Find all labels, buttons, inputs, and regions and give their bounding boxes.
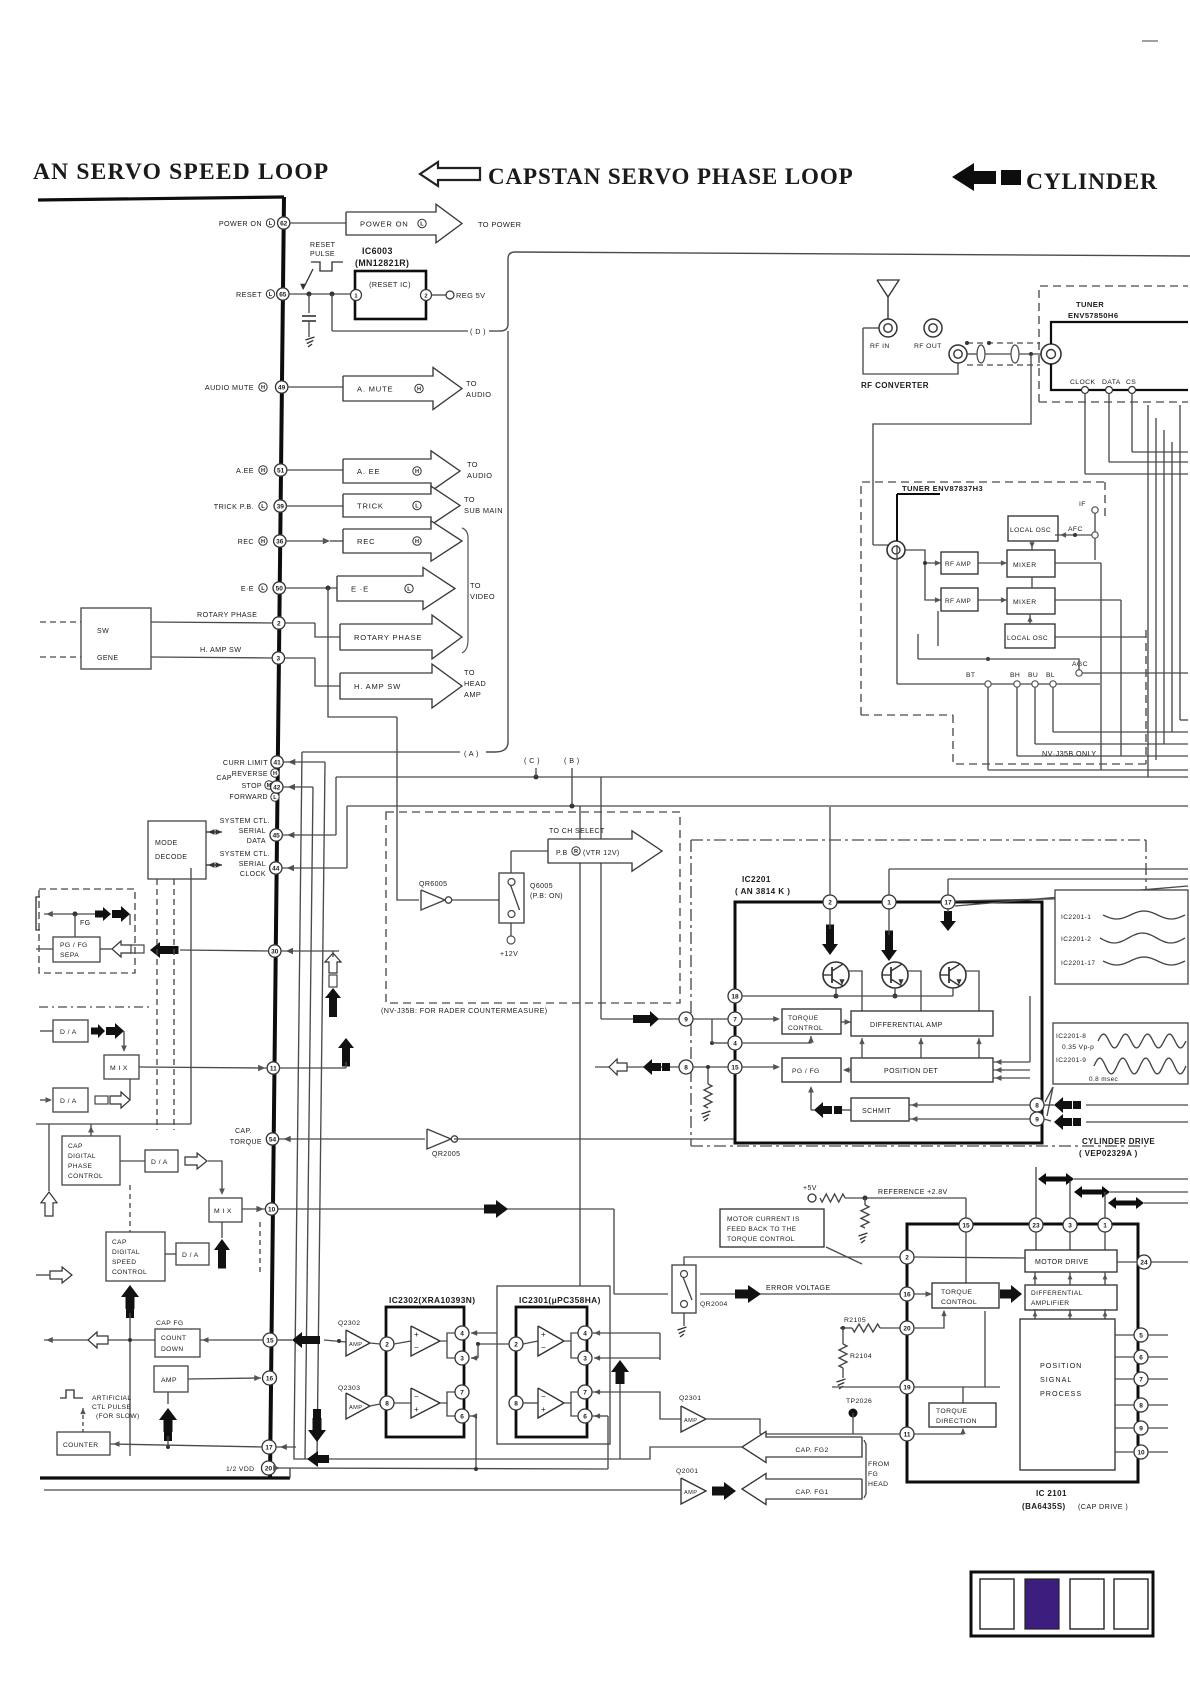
svg-text:TO: TO — [464, 495, 475, 504]
svg-text:( D ): ( D ) — [470, 327, 486, 336]
svg-text:( VEP02329A ): ( VEP02329A ) — [1079, 1149, 1138, 1158]
svg-text:17: 17 — [265, 1444, 273, 1451]
svg-text:IF: IF — [1079, 501, 1086, 508]
svg-text:P.B: P.B — [556, 850, 568, 857]
svg-text:PROCESS: PROCESS — [1040, 1389, 1082, 1398]
svg-text:SYSTEM CTL.: SYSTEM CTL. — [220, 851, 270, 858]
svg-text:TRICK: TRICK — [357, 501, 384, 510]
svg-text:TO: TO — [466, 379, 477, 388]
svg-text:SW: SW — [97, 628, 109, 635]
svg-text:QR6005: QR6005 — [419, 881, 447, 888]
svg-text:TO: TO — [467, 460, 478, 469]
svg-text:RF AMP: RF AMP — [945, 598, 971, 605]
svg-text:AMP: AMP — [349, 1342, 362, 1348]
svg-text:IC6003: IC6003 — [362, 246, 393, 256]
svg-text:2: 2 — [828, 899, 832, 906]
svg-text:RF AMP: RF AMP — [945, 561, 971, 568]
svg-text:45: 45 — [273, 832, 281, 839]
svg-text:ERROR VOLTAGE: ERROR VOLTAGE — [766, 1285, 830, 1292]
svg-text:+12V: +12V — [500, 951, 518, 958]
svg-text:8: 8 — [385, 1400, 389, 1407]
svg-text:0.35 Vp-p: 0.35 Vp-p — [1062, 1044, 1094, 1051]
svg-text:R2104: R2104 — [850, 1353, 872, 1360]
svg-text:11: 11 — [904, 1431, 911, 1438]
svg-text:NV·J35B ONLY: NV·J35B ONLY — [1042, 749, 1097, 758]
svg-text:DOWN: DOWN — [161, 1346, 183, 1353]
svg-text:+5V: +5V — [803, 1185, 817, 1192]
svg-text:51: 51 — [277, 467, 285, 474]
svg-text:TORQUE: TORQUE — [788, 1015, 819, 1022]
svg-text:(CAP DRIVE ): (CAP DRIVE ) — [1078, 1502, 1128, 1511]
svg-text:D / A: D / A — [151, 1159, 168, 1166]
svg-text:H: H — [261, 385, 265, 391]
svg-text:4: 4 — [733, 1040, 737, 1047]
svg-text:L: L — [415, 504, 419, 510]
svg-text:CAPSTAN SERVO PHASE LOOP: CAPSTAN SERVO PHASE LOOP — [488, 164, 854, 189]
svg-text:( C ): ( C ) — [524, 756, 540, 765]
svg-text:REVERSE: REVERSE — [232, 771, 268, 778]
svg-text:7: 7 — [460, 1389, 464, 1396]
svg-text:IC2201-17: IC2201-17 — [1061, 960, 1095, 967]
svg-text:IC2201-1: IC2201-1 — [1061, 914, 1091, 921]
svg-text:17: 17 — [944, 899, 952, 906]
svg-text:2: 2 — [905, 1254, 909, 1261]
svg-text:FG: FG — [868, 1471, 878, 1478]
svg-text:IC2201-8: IC2201-8 — [1056, 1033, 1086, 1040]
svg-text:2: 2 — [514, 1341, 518, 1348]
svg-text:SERIAL: SERIAL — [239, 861, 266, 868]
svg-text:H: H — [415, 469, 419, 475]
svg-text:10: 10 — [268, 1206, 276, 1213]
svg-text:2: 2 — [424, 293, 427, 299]
svg-text:VIDEO: VIDEO — [470, 592, 495, 601]
svg-text:BT: BT — [966, 672, 976, 679]
svg-text:H: H — [261, 468, 265, 474]
svg-text:+: + — [414, 1405, 419, 1414]
svg-text:8: 8 — [514, 1400, 518, 1407]
svg-text:36: 36 — [276, 538, 284, 545]
svg-text:CYLINDER: CYLINDER — [1026, 169, 1158, 195]
svg-text:16: 16 — [266, 1375, 274, 1382]
svg-text:AN SERVO SPEED LOOP: AN SERVO SPEED LOOP — [33, 159, 329, 185]
svg-text:POSITION DET: POSITION DET — [884, 1068, 939, 1075]
svg-text:AMPLIFIER: AMPLIFIER — [1031, 1300, 1069, 1307]
svg-text:H. AMP SW: H. AMP SW — [200, 645, 241, 654]
svg-text:CAP: CAP — [68, 1143, 83, 1150]
svg-text:CTL PULSE: CTL PULSE — [92, 1404, 131, 1411]
svg-text:SYSTEM CTL.: SYSTEM CTL. — [220, 818, 270, 825]
svg-text:39: 39 — [277, 503, 285, 510]
svg-text:15: 15 — [266, 1337, 274, 1344]
svg-text:CAP.: CAP. — [235, 1128, 252, 1135]
svg-text:CAP. FG1: CAP. FG1 — [795, 1489, 828, 1496]
svg-text:A. MUTE: A. MUTE — [357, 384, 393, 393]
svg-text:REC: REC — [238, 537, 254, 546]
svg-text:MIXER: MIXER — [1013, 599, 1037, 606]
svg-text:MOTOR DRIVE: MOTOR DRIVE — [1035, 1259, 1089, 1266]
svg-text:(RESET IC): (RESET IC) — [369, 280, 411, 289]
svg-text:MIXER: MIXER — [1013, 562, 1037, 569]
svg-text:REFERENCE +2.8V: REFERENCE +2.8V — [878, 1189, 948, 1196]
svg-text:20: 20 — [903, 1325, 911, 1332]
svg-text:RF CONVERTER: RF CONVERTER — [861, 381, 929, 390]
svg-text:1: 1 — [1103, 1222, 1107, 1229]
svg-text:BL: BL — [1046, 672, 1055, 679]
svg-text:+: + — [541, 1330, 546, 1339]
svg-text:CONTROL: CONTROL — [941, 1299, 977, 1306]
svg-text:−: − — [414, 1343, 419, 1352]
svg-text:PHASE: PHASE — [68, 1163, 93, 1170]
svg-text:RESET: RESET — [236, 290, 262, 299]
svg-text:L: L — [261, 586, 265, 592]
svg-text:44: 44 — [272, 865, 280, 872]
svg-text:L: L — [420, 222, 424, 228]
svg-text:DIRECTION: DIRECTION — [936, 1418, 977, 1425]
svg-text:AGC: AGC — [1072, 661, 1088, 668]
svg-text:TO POWER: TO POWER — [478, 220, 521, 229]
svg-text:DATA: DATA — [1102, 379, 1121, 386]
svg-text:7: 7 — [733, 1016, 737, 1023]
svg-text:15: 15 — [731, 1064, 739, 1071]
svg-text:TO: TO — [464, 668, 475, 677]
svg-text:E·E: E·E — [241, 584, 254, 593]
svg-text:4: 4 — [460, 1330, 464, 1337]
svg-text:BU: BU — [1028, 672, 1038, 679]
svg-text:TRICK P.B.: TRICK P.B. — [214, 502, 254, 511]
svg-text:8: 8 — [1035, 1102, 1039, 1109]
svg-text:6: 6 — [1139, 1354, 1143, 1361]
svg-text:CONTROL: CONTROL — [112, 1269, 147, 1276]
svg-text:9: 9 — [684, 1016, 688, 1023]
svg-text:AUDIO: AUDIO — [466, 390, 491, 399]
svg-text:0.8 msec: 0.8 msec — [1089, 1076, 1119, 1083]
svg-text:H: H — [415, 539, 419, 545]
svg-text:TORQUE: TORQUE — [941, 1289, 972, 1296]
svg-text:8: 8 — [684, 1064, 688, 1071]
svg-text:SCHMIT: SCHMIT — [862, 1108, 892, 1115]
svg-text:IC2301(μPC358HA): IC2301(μPC358HA) — [519, 1295, 601, 1305]
svg-text:DIFFERENTIAL: DIFFERENTIAL — [1031, 1290, 1083, 1297]
svg-text:H: H — [417, 387, 421, 393]
svg-text:(NV-J35B: FOR RADER COUNTERM: (NV-J35B: FOR RADER COUNTERMEASURE) — [381, 1006, 548, 1015]
svg-text:3: 3 — [583, 1355, 587, 1362]
svg-text:A. EE: A. EE — [357, 467, 380, 476]
svg-text:HEAD: HEAD — [464, 679, 486, 688]
svg-text:SIGNAL: SIGNAL — [1040, 1375, 1072, 1384]
svg-text:LOCAL OSC: LOCAL OSC — [1010, 527, 1051, 534]
svg-text:Q2302: Q2302 — [338, 1320, 360, 1327]
svg-text:IC2302(XRA10393N): IC2302(XRA10393N) — [389, 1295, 475, 1305]
svg-text:( AN 3814 K ): ( AN 3814 K ) — [735, 887, 790, 896]
svg-text:ARTIFICIAL: ARTIFICIAL — [92, 1395, 131, 1402]
svg-text:TORQUE: TORQUE — [936, 1408, 967, 1415]
svg-text:SERIAL: SERIAL — [239, 828, 266, 835]
svg-text:H. AMP SW: H. AMP SW — [354, 682, 401, 691]
svg-text:SPEED: SPEED — [112, 1259, 136, 1266]
svg-text:18: 18 — [731, 993, 739, 1000]
svg-text:Q6005: Q6005 — [530, 883, 553, 890]
svg-text:CS: CS — [1126, 379, 1136, 386]
svg-text:IC2201-9: IC2201-9 — [1056, 1057, 1086, 1064]
svg-text:3: 3 — [1068, 1222, 1072, 1229]
svg-text:L: L — [273, 795, 277, 801]
svg-text:PG / FG: PG / FG — [60, 942, 88, 949]
svg-text:FORWARD: FORWARD — [229, 794, 268, 801]
svg-text:PG / FG: PG / FG — [792, 1068, 820, 1075]
svg-text:23: 23 — [1032, 1222, 1040, 1229]
svg-text:H: H — [261, 539, 265, 545]
svg-text:−: − — [541, 1343, 546, 1352]
svg-text:CURR LIMIT: CURR LIMIT — [223, 758, 268, 767]
svg-text:R2105: R2105 — [844, 1317, 866, 1324]
svg-text:(MN12821R): (MN12821R) — [355, 258, 409, 268]
svg-text:AFC: AFC — [1068, 526, 1083, 533]
svg-text:41: 41 — [273, 759, 281, 766]
svg-text:5: 5 — [1139, 1332, 1143, 1339]
svg-text:9: 9 — [1035, 1116, 1039, 1123]
svg-text:SUB MAIN: SUB MAIN — [464, 506, 503, 515]
svg-text:CONTROL: CONTROL — [788, 1025, 823, 1032]
svg-text:IC2201-2: IC2201-2 — [1061, 936, 1091, 943]
svg-text:−: − — [541, 1392, 546, 1401]
svg-text:CAP. FG2: CAP. FG2 — [795, 1447, 828, 1454]
svg-text:GENE: GENE — [97, 655, 118, 662]
svg-text:65: 65 — [279, 291, 287, 298]
svg-text:CYLINDER DRIVE: CYLINDER DRIVE — [1082, 1137, 1155, 1146]
svg-text:( B ): ( B ) — [564, 756, 580, 765]
svg-text:DECODE: DECODE — [155, 854, 187, 861]
svg-text:REG 5V: REG 5V — [456, 291, 486, 300]
svg-text:11: 11 — [270, 1065, 277, 1072]
svg-text:DIGITAL: DIGITAL — [112, 1249, 140, 1256]
svg-text:L: L — [269, 221, 273, 227]
svg-text:+: + — [541, 1405, 546, 1414]
svg-text:7: 7 — [1139, 1376, 1143, 1383]
svg-text:FROM: FROM — [868, 1461, 890, 1468]
svg-text:62: 62 — [280, 220, 288, 227]
svg-text:IC2201: IC2201 — [742, 875, 771, 884]
svg-text:50: 50 — [276, 585, 284, 592]
svg-text:20: 20 — [265, 1465, 273, 1472]
svg-text:RF IN: RF IN — [870, 343, 890, 350]
svg-text:42: 42 — [273, 784, 281, 791]
svg-text:E ·E: E ·E — [351, 584, 369, 593]
svg-text:DATA: DATA — [247, 838, 266, 845]
svg-text:10: 10 — [1137, 1449, 1145, 1456]
svg-text:TORQUE CONTROL: TORQUE CONTROL — [727, 1236, 795, 1243]
svg-text:(BA6435S): (BA6435S) — [1022, 1502, 1066, 1511]
svg-text:DIGITAL: DIGITAL — [68, 1153, 96, 1160]
svg-text:(VTR 12V): (VTR 12V) — [583, 850, 620, 857]
svg-text:2: 2 — [277, 620, 281, 627]
svg-text:AUDIO: AUDIO — [467, 471, 492, 480]
svg-text:24: 24 — [1140, 1259, 1148, 1266]
svg-text:HEAD: HEAD — [868, 1481, 888, 1488]
svg-text:MODE: MODE — [155, 840, 178, 847]
svg-text:POWER ON: POWER ON — [360, 219, 409, 228]
svg-text:QR2005: QR2005 — [432, 1151, 460, 1158]
svg-text:L: L — [269, 292, 273, 298]
svg-text:AMP: AMP — [684, 1490, 697, 1496]
svg-text:COUNTER: COUNTER — [63, 1442, 98, 1449]
svg-text:+: + — [414, 1330, 419, 1339]
svg-text:TUNER ENV87837H3: TUNER ENV87837H3 — [902, 484, 983, 493]
svg-text:15: 15 — [962, 1222, 970, 1229]
svg-text:7: 7 — [583, 1389, 587, 1396]
svg-text:ROTARY PHASE: ROTARY PHASE — [197, 610, 257, 619]
svg-text:1/2 VDD: 1/2 VDD — [226, 1466, 255, 1473]
svg-text:LOCAL OSC: LOCAL OSC — [1007, 635, 1048, 642]
svg-text:PULSE: PULSE — [310, 251, 335, 258]
svg-text:4: 4 — [583, 1330, 587, 1337]
svg-text:ENV57850H6: ENV57850H6 — [1068, 311, 1118, 320]
svg-text:6: 6 — [583, 1413, 587, 1420]
svg-text:AMP: AMP — [464, 690, 481, 699]
svg-text:RESET: RESET — [310, 242, 336, 249]
svg-text:AUDIO MUTE: AUDIO MUTE — [205, 383, 254, 392]
svg-text:9: 9 — [1139, 1425, 1143, 1432]
svg-text:QR2004: QR2004 — [700, 1301, 728, 1308]
svg-text:3: 3 — [277, 655, 281, 662]
svg-text:Q2303: Q2303 — [338, 1385, 360, 1392]
svg-text:H: H — [273, 771, 277, 777]
svg-text:Q2001: Q2001 — [676, 1468, 698, 1475]
svg-text:MOTOR CURRENT IS: MOTOR CURRENT IS — [727, 1216, 800, 1223]
svg-text:−: − — [414, 1392, 419, 1401]
svg-text:49: 49 — [278, 384, 286, 391]
svg-text:(P.B: ON): (P.B: ON) — [530, 893, 563, 900]
svg-text:AMP: AMP — [349, 1405, 362, 1411]
svg-text:6: 6 — [460, 1413, 464, 1420]
svg-text:( A ): ( A ) — [464, 749, 479, 758]
svg-text:AMP: AMP — [161, 1377, 177, 1384]
svg-text:D / A: D / A — [60, 1029, 77, 1036]
svg-text:TP2026: TP2026 — [846, 1398, 872, 1405]
svg-text:IC 2101: IC 2101 — [1036, 1489, 1067, 1498]
svg-text:FG: FG — [80, 920, 91, 927]
svg-text:3: 3 — [460, 1355, 464, 1362]
svg-text:CAP: CAP — [112, 1239, 127, 1246]
svg-text:BH: BH — [1010, 672, 1020, 679]
svg-text:D / A: D / A — [60, 1098, 77, 1105]
svg-text:Q2301: Q2301 — [679, 1395, 701, 1402]
svg-text:ROTARY PHASE: ROTARY PHASE — [354, 633, 422, 642]
svg-text:AMP: AMP — [684, 1418, 697, 1424]
svg-text:L: L — [261, 504, 265, 510]
svg-text:2: 2 — [385, 1341, 389, 1348]
svg-text:POSITION: POSITION — [1040, 1361, 1082, 1370]
svg-text:M I X: M I X — [214, 1208, 232, 1215]
svg-text:L: L — [407, 587, 411, 593]
svg-text:19: 19 — [903, 1384, 911, 1391]
svg-text:CAP FG: CAP FG — [156, 1320, 184, 1327]
svg-text:(FOR SLOW): (FOR SLOW) — [96, 1413, 140, 1420]
svg-text:8: 8 — [1139, 1402, 1143, 1409]
svg-text:TO: TO — [470, 581, 481, 590]
svg-text:D / A: D / A — [182, 1252, 199, 1259]
svg-text:30: 30 — [271, 948, 279, 955]
svg-text:1: 1 — [887, 899, 891, 906]
svg-text:TO CH SELECT: TO CH SELECT — [549, 828, 605, 835]
svg-text:CLOCK: CLOCK — [240, 871, 266, 878]
svg-text:CONTROL: CONTROL — [68, 1173, 103, 1180]
svg-text:TORQUE: TORQUE — [230, 1139, 262, 1146]
svg-text:FEED BACK TO THE: FEED BACK TO THE — [727, 1226, 797, 1233]
svg-text:R: R — [574, 849, 578, 855]
svg-text:A.EE: A.EE — [236, 466, 254, 475]
svg-text:CAP: CAP — [216, 775, 232, 782]
svg-text:16: 16 — [903, 1291, 911, 1298]
svg-text:RF OUT: RF OUT — [914, 343, 942, 350]
svg-text:STOP: STOP — [241, 783, 262, 790]
svg-text:COUNT: COUNT — [161, 1335, 186, 1342]
svg-text:54: 54 — [269, 1136, 277, 1143]
svg-text:DIFFERENTIAL AMP: DIFFERENTIAL AMP — [870, 1022, 943, 1029]
svg-text:REC: REC — [357, 537, 375, 546]
svg-text:CLOCK: CLOCK — [1070, 379, 1095, 386]
svg-text:POWER ON: POWER ON — [219, 219, 262, 228]
svg-text:TUNER: TUNER — [1076, 300, 1104, 309]
svg-text:M I X: M I X — [110, 1065, 128, 1072]
svg-text:SEPA: SEPA — [60, 952, 79, 959]
